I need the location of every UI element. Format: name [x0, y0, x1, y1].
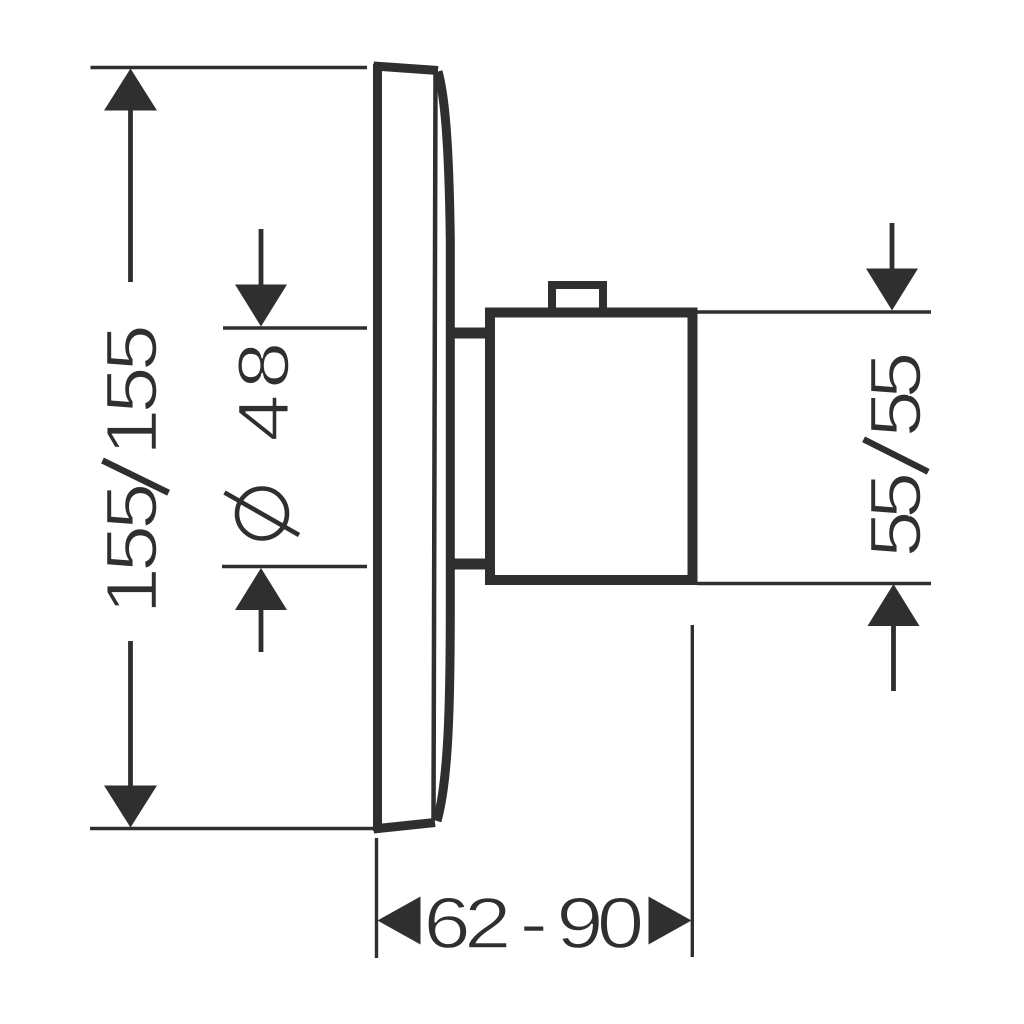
dimension 55/55 upper arrowhead	[866, 269, 918, 311]
svg-text:55: 55	[856, 475, 936, 558]
dimension 62-90 left extension line	[375, 838, 378, 958]
handle grip button	[552, 285, 603, 311]
svg-text:155: 155	[92, 486, 172, 615]
dimension diameter 48 upper arrowhead	[235, 285, 287, 327]
dimension 55/55 upper arrow stem	[890, 223, 895, 272]
escutcheon plate inner front edge	[434, 73, 436, 820]
dimension diameter 48 top extension line	[223, 326, 367, 329]
svg-text:48: 48	[224, 336, 304, 441]
escutcheon plate left (wall) edge	[373, 64, 382, 831]
dimension 155/155 upper arrowhead	[104, 69, 157, 111]
dimension 155/155 lower arrow stem	[128, 641, 133, 792]
dimension 55/55 top extension line	[698, 310, 932, 313]
label 55/55	[856, 354, 936, 557]
dimension diameter 48 upper arrow stem	[259, 229, 264, 290]
stem sleeve top edge	[448, 328, 490, 339]
svg-text:155: 155	[92, 327, 172, 456]
diameter symbol circle	[237, 489, 287, 539]
handle knob body	[490, 313, 693, 581]
stem sleeve bottom edge	[448, 559, 490, 570]
svg-text:55: 55	[856, 354, 936, 437]
dimension 155/155 lower arrowhead	[104, 786, 157, 828]
dimension 62-90 left arrowhead	[378, 897, 421, 945]
dimension 155/155 bottom extension line	[90, 827, 373, 830]
escutcheon plate bottom edge	[374, 823, 436, 830]
svg-text:62 - 90: 62 - 90	[424, 883, 642, 963]
escutcheon plate top edge	[374, 66, 439, 71]
dimension 155/155 upper arrow stem	[128, 105, 133, 282]
dimension 62-90 right extension line	[691, 625, 694, 957]
label 155/155	[92, 327, 172, 614]
dimension diameter 48 bottom extension line	[222, 565, 367, 568]
escutcheon plate domed front curve	[437, 72, 450, 822]
dimension 55/55 bottom extension line	[698, 582, 932, 585]
dimension 62-90 right arrowhead	[649, 897, 692, 945]
diameter symbol slash	[225, 493, 300, 536]
dimension 55/55 lower arrow stem	[891, 622, 896, 691]
dimension diameter 48 lower arrow stem	[259, 607, 264, 652]
dimension 155/155 top extension line	[91, 66, 368, 69]
dimension 55/55 lower arrowhead	[868, 584, 920, 626]
dimension diameter 48 lower arrowhead	[235, 568, 287, 610]
